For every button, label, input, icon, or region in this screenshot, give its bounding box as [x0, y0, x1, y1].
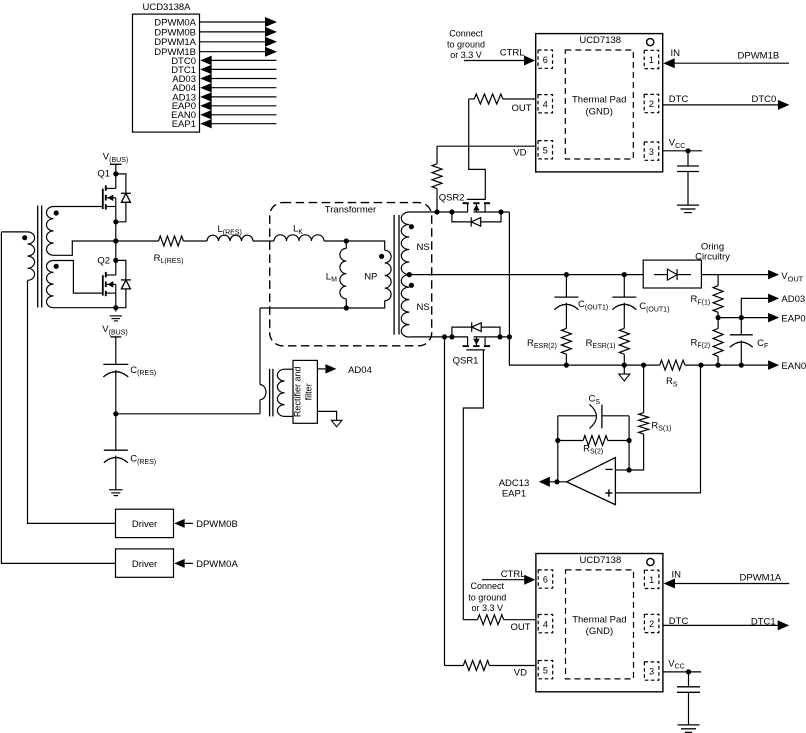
wire T1 primary return	[260, 307, 346, 309]
transformer T2 core	[37, 206, 39, 308]
node Q1 drain junction	[113, 171, 118, 176]
svg-text:(GND): (GND)	[586, 626, 613, 637]
svg-text:CTRL: CTRL	[500, 48, 525, 59]
wire feedback left leg	[557, 416, 559, 482]
wire NS top to QSR2 rail	[409, 211, 468, 213]
pin 1 of U1	[644, 50, 659, 68]
node C(OUT1) branch 2 top	[564, 272, 569, 277]
wire aux secondary to rectifier box	[285, 368, 293, 370]
node QSR2 diode right	[498, 209, 503, 214]
transistor Q1	[97, 169, 115, 210]
node feedback left mid	[555, 438, 560, 443]
capacitor CF	[730, 318, 768, 366]
winding aux secondary	[277, 369, 284, 416]
svg-text:5: 5	[543, 665, 548, 675]
svg-text:EAP1: EAP1	[172, 119, 196, 130]
ground U1 VCC	[677, 204, 699, 206]
wire cap midpoint to aux sense line	[116, 413, 260, 415]
node U1 VCC junction	[685, 148, 690, 153]
pin 1 of U2	[644, 570, 659, 588]
pin 2 of U2	[644, 614, 659, 632]
svg-text:QSR1: QSR1	[453, 356, 479, 367]
node LK / LM junction	[344, 238, 349, 243]
node RF2 bottom	[716, 363, 721, 368]
svg-text:EAP1: EAP1	[502, 489, 526, 500]
node center tap	[407, 272, 412, 277]
node C(OUT1) branch 1 top	[622, 272, 627, 277]
svg-text:AD04: AD04	[348, 365, 372, 376]
svg-text:AD13: AD13	[172, 92, 196, 103]
svg-text:Connect: Connect	[471, 581, 505, 591]
svg-text:EAN0: EAN0	[781, 361, 806, 372]
svg-text:DPWM0A: DPWM0A	[196, 559, 238, 570]
wire AD03 from divider node	[741, 298, 768, 317]
transformer T1 dashed outline	[270, 203, 432, 346]
svg-text:3: 3	[649, 667, 654, 677]
node NS bottom polarity dot	[409, 283, 414, 288]
pin 5 of U1	[538, 141, 553, 159]
resistor RL(RES)	[116, 236, 184, 265]
pin AD04 input wire	[172, 83, 276, 94]
wire U1 OUT pin 4	[469, 99, 536, 114]
svg-text:4: 4	[543, 619, 548, 629]
resistor VD sense (U1)	[432, 164, 442, 189]
pin 6 of U2	[538, 570, 553, 588]
svg-text:IN: IN	[671, 48, 681, 59]
winding aux primary bump	[260, 385, 266, 400]
wire VOUT arrow	[768, 270, 804, 284]
block Oring Circuitry	[643, 241, 730, 288]
diode QSR2 body	[452, 212, 501, 227]
node T2 sec2 polarity dot	[54, 264, 59, 269]
pin EAP0 input wire	[172, 101, 277, 112]
svg-text:VD: VD	[513, 148, 526, 159]
node QSR1 diode left	[449, 334, 454, 339]
wire DTC1 from U2 DTC pin 2	[663, 616, 789, 630]
wire cap to ground	[688, 692, 690, 725]
wire T2 primary bottom to DPWM0B driver	[28, 280, 116, 523]
wire ground rail left segment	[566, 364, 643, 366]
pin 4 of U1	[538, 95, 553, 113]
pin AD03 input wire	[172, 74, 276, 85]
winding NS top secondary	[401, 212, 429, 275]
svg-text:5: 5	[543, 145, 548, 155]
wire U2 VCC pin 3	[663, 658, 701, 672]
svg-text:Driver: Driver	[132, 519, 157, 530]
pin 6 of U1	[538, 50, 553, 68]
wire VBUS to C(RES) 1	[115, 337, 117, 365]
node QSR1 VD junction	[442, 334, 447, 339]
node CF top junction	[739, 315, 744, 320]
svg-text:IN: IN	[672, 569, 682, 580]
node T2 primary polarity dot	[22, 235, 27, 240]
capacitor CS feedback	[558, 394, 629, 429]
diode QSR1 body	[452, 322, 500, 337]
svg-text:1: 1	[649, 55, 654, 65]
node U2 VCC junction	[686, 669, 691, 674]
wire QSR join down to ground rail	[509, 337, 566, 365]
svg-text:NP: NP	[364, 272, 377, 283]
note Connect to ground or 3.3 V (U1 CTRL)	[447, 28, 485, 60]
wire C(RES)1 to node	[115, 370, 117, 450]
inductor LK leakage	[274, 224, 346, 242]
capacitor U1 VCC bypass	[687, 151, 689, 166]
driver block DPWM0A	[116, 549, 174, 577]
pin 3 of U2	[644, 662, 659, 680]
wire DPWM0B label arrow	[174, 519, 238, 530]
svg-text:Transformer: Transformer	[325, 204, 376, 215]
wire DPWM0A label arrow	[174, 559, 238, 570]
transformer aux core	[269, 369, 271, 417]
controller U3 UCD3138A box	[133, 2, 200, 132]
diode Oring	[654, 269, 691, 280]
ground output (triangle)	[623, 365, 625, 374]
node NP polarity dot	[379, 254, 384, 259]
wire aux sense primary line	[259, 308, 261, 385]
svg-text:filter: filter	[304, 383, 314, 400]
winding NS bottom secondary	[401, 275, 429, 338]
node Q2 source	[113, 305, 118, 310]
diode Q1 body	[116, 174, 131, 222]
svg-text:to ground: to ground	[447, 40, 485, 50]
wire rail through Oring to VOUT	[701, 274, 768, 276]
svg-text:Q2: Q2	[97, 255, 110, 266]
pin DPWM1B output wire	[154, 47, 277, 58]
svg-text:NS: NS	[417, 302, 430, 313]
pin DPWM0B output wire	[154, 27, 277, 38]
svg-text:DPWM1A: DPWM1A	[740, 573, 782, 584]
wire DPWM1A into U2 IN pin 1	[664, 569, 790, 588]
resistor RF(2)	[691, 318, 724, 366]
ground rectifier (triangle)	[331, 420, 342, 427]
wire EAP0 arrow	[768, 313, 806, 324]
resistor RS(1)	[629, 365, 671, 470]
svg-text:Q1: Q1	[97, 169, 110, 180]
node Q2 drain junction	[113, 258, 118, 263]
pin AD13 input wire	[172, 92, 276, 103]
wire NS bottom to QSR1 rail	[409, 336, 468, 338]
node V(BUS) supply lower	[102, 324, 127, 337]
transformer T1 core	[393, 215, 395, 335]
svg-text:VD: VD	[514, 668, 527, 679]
svg-text:2: 2	[649, 99, 654, 109]
svg-text:Rectifier and: Rectifier and	[293, 367, 303, 418]
pin DTC1 input wire	[171, 65, 276, 76]
svg-text:AD03: AD03	[781, 294, 805, 305]
pin 2 of U1	[644, 94, 659, 112]
pin 3 of U1	[644, 142, 659, 160]
wire rectifier ground leg	[317, 411, 336, 420]
wire output rail from center tap	[409, 274, 643, 276]
wire QSR1 node to U2 VD	[444, 337, 446, 666]
node VD sense junction	[434, 209, 439, 214]
wire QSR1 gate run	[463, 350, 483, 620]
inductor L(RES)	[183, 224, 274, 241]
node output junction	[554, 479, 559, 484]
wire CTRL into U1 pin 6	[464, 48, 535, 66]
wire AD04 output	[317, 364, 371, 376]
resistor QSR1 gate (U2 OUT)	[463, 615, 536, 634]
svg-text:UCD7138: UCD7138	[580, 555, 622, 566]
svg-text:UCD3138A: UCD3138A	[142, 2, 191, 13]
gate driver U1 UCD7138 box	[536, 34, 663, 172]
wire Q2 source to source node	[115, 293, 117, 311]
svg-text:Thermal Pad: Thermal Pad	[572, 95, 626, 106]
svg-text:NS: NS	[417, 242, 430, 253]
winding T2 secondary 1 (Q1 gate)	[47, 207, 54, 256]
wire ADC13 EAP1 arrow	[499, 477, 550, 500]
pin 5 of U2	[538, 661, 553, 679]
svg-text:DPWM1B: DPWM1B	[738, 50, 780, 61]
resistor VD sense (U2)	[445, 661, 536, 679]
svg-text:Circuitry: Circuitry	[695, 252, 730, 263]
capacitor C(RES) 2	[104, 450, 156, 466]
wire DTC0 from U1 DTC pin 2	[663, 94, 790, 110]
winding T2 secondary 2 (Q2 gate)	[47, 261, 54, 308]
svg-text:1: 1	[649, 575, 654, 585]
node RS(1) junction	[641, 363, 646, 368]
resistor RESR(2)	[527, 328, 571, 365]
svg-text:Thermal Pad: Thermal Pad	[572, 615, 626, 626]
wire feedback right leg	[628, 416, 630, 470]
ground Q2 source (small)	[110, 315, 123, 317]
transistor QSR2	[439, 193, 490, 212]
svg-text:4: 4	[543, 99, 548, 109]
driver block DPWM0B	[116, 509, 174, 537]
winding T2 primary	[1, 231, 27, 233]
wire mid node to Q2 drain	[115, 241, 117, 275]
capacitor C(OUT1) branch 2	[612, 275, 636, 329]
svg-text:EAP0: EAP0	[781, 313, 805, 324]
transistor Q2	[97, 255, 115, 296]
pin 4 of U2	[538, 615, 553, 633]
wire VBUS to Q1 drain	[115, 164, 117, 188]
wire cap to ground	[687, 172, 689, 206]
inductor LM magnetizing	[326, 241, 347, 308]
node resonant cap midpoint	[113, 411, 118, 416]
wire U1 VD pin 5	[437, 146, 536, 164]
gate driver U2 UCD7138 box	[536, 554, 663, 692]
node QSR1 diode right	[497, 334, 502, 339]
node T2 sec1 polarity dot	[54, 210, 59, 215]
wire opamp plus input	[615, 365, 700, 493]
wire U1 VCC pin 3	[663, 138, 702, 151]
transistor QSR1	[453, 337, 491, 367]
resistor RF(1)	[691, 275, 724, 318]
svg-text:DTC: DTC	[669, 94, 689, 105]
ground resonant caps	[109, 489, 123, 491]
resistor RS	[660, 360, 685, 388]
ground U2 VCC	[678, 724, 700, 726]
wire AD03 arrow	[768, 294, 805, 306]
capacitor U2 VCC bypass	[688, 672, 690, 687]
pin EAN0 input wire	[171, 110, 276, 121]
svg-text:ADC13: ADC13	[499, 478, 530, 489]
wire QSR2 to QSR1 join	[508, 212, 510, 337]
wire CTRL into U2 pin 6	[482, 569, 535, 585]
node half-bridge mid	[113, 238, 118, 243]
wire C(RES)2 to ground	[115, 456, 117, 490]
node NS top polarity dot	[409, 224, 414, 229]
svg-text:or 3.3 V: or 3.3 V	[472, 603, 504, 613]
wire sec1 bottom to mid node	[54, 241, 116, 255]
pin DPWM1A output wire	[154, 37, 277, 48]
node LM bottom junction	[344, 305, 349, 310]
wire VD resistor to switch node	[436, 189, 438, 212]
svg-text:2: 2	[649, 619, 654, 629]
svg-text:OUT: OUT	[510, 622, 530, 633]
node RESR2 bottom	[564, 363, 569, 368]
svg-text:6: 6	[543, 575, 548, 585]
wire DPWM1B into U1 IN pin 1	[663, 48, 789, 68]
thermal pad (GND) of U1	[565, 50, 633, 159]
node opamp plus junction	[698, 363, 703, 368]
pin DTC0 input wire	[171, 56, 276, 67]
node V(BUS) supply top	[103, 152, 128, 165]
note Connect to ground or 3.3 V (U2 CTRL)	[468, 581, 506, 613]
winding NP primary	[346, 241, 391, 308]
svg-text:UCD7138: UCD7138	[579, 35, 621, 46]
pin DPWM0A output wire	[154, 17, 277, 28]
svg-text:3: 3	[649, 147, 654, 157]
wire T2 primary top to DPWM0A driver	[1, 232, 115, 564]
wire OUT resistor to QSR2 gate	[469, 99, 486, 199]
wire sec2 bottom to Q2 source	[54, 307, 116, 309]
wire ground rail right segment to EAN0	[685, 364, 768, 366]
svg-text:to ground: to ground	[468, 593, 506, 603]
svg-text:DPWM0B: DPWM0B	[196, 519, 238, 530]
node Q1 source junction	[113, 219, 118, 224]
node QSR2 diode left	[449, 209, 454, 214]
pin EAP1 input wire	[172, 119, 277, 130]
svg-text:CTRL: CTRL	[501, 569, 526, 580]
wire opamp output	[550, 481, 567, 483]
node feedback right mid	[627, 438, 632, 443]
node CF bottom	[739, 363, 744, 368]
resistor RS(2) feedback	[558, 436, 629, 456]
wire EAN0 arrow	[768, 360, 806, 371]
svg-text:Connect: Connect	[449, 28, 483, 38]
node RF divider	[716, 315, 721, 320]
block rectifier and filter	[293, 360, 318, 423]
wire Q1 source to mid node	[115, 207, 117, 242]
svg-text:DTC0: DTC0	[752, 94, 777, 105]
svg-text:Driver: Driver	[132, 559, 157, 570]
svg-text:6: 6	[543, 55, 548, 65]
svg-text:or 3.3 V: or 3.3 V	[450, 50, 482, 60]
svg-text:(GND): (GND)	[585, 106, 612, 117]
svg-text:OUT: OUT	[511, 103, 531, 114]
svg-text:QSR2: QSR2	[439, 193, 465, 204]
node RESR1 bottom	[622, 363, 627, 368]
resistor RESR(1)	[586, 328, 630, 365]
op-amp U4 error amplifier	[567, 458, 616, 505]
wire opamp minus input	[615, 469, 629, 471]
diode Q2 body	[116, 260, 131, 307]
capacitor C(OUT1) branch 1	[554, 275, 578, 329]
node QSR join	[507, 334, 512, 339]
capacitor C(RES) 1	[103, 364, 156, 377]
wire sec2 top to Q2 gate	[54, 261, 103, 294]
node minus input junction	[627, 467, 632, 472]
wire sec1 top to Q1 gate	[54, 206, 103, 208]
thermal pad (GND) of U2	[566, 570, 634, 679]
resistor QSR2 gate (U1 OUT)	[474, 94, 503, 104]
wire EAP0 from divider	[718, 317, 768, 319]
